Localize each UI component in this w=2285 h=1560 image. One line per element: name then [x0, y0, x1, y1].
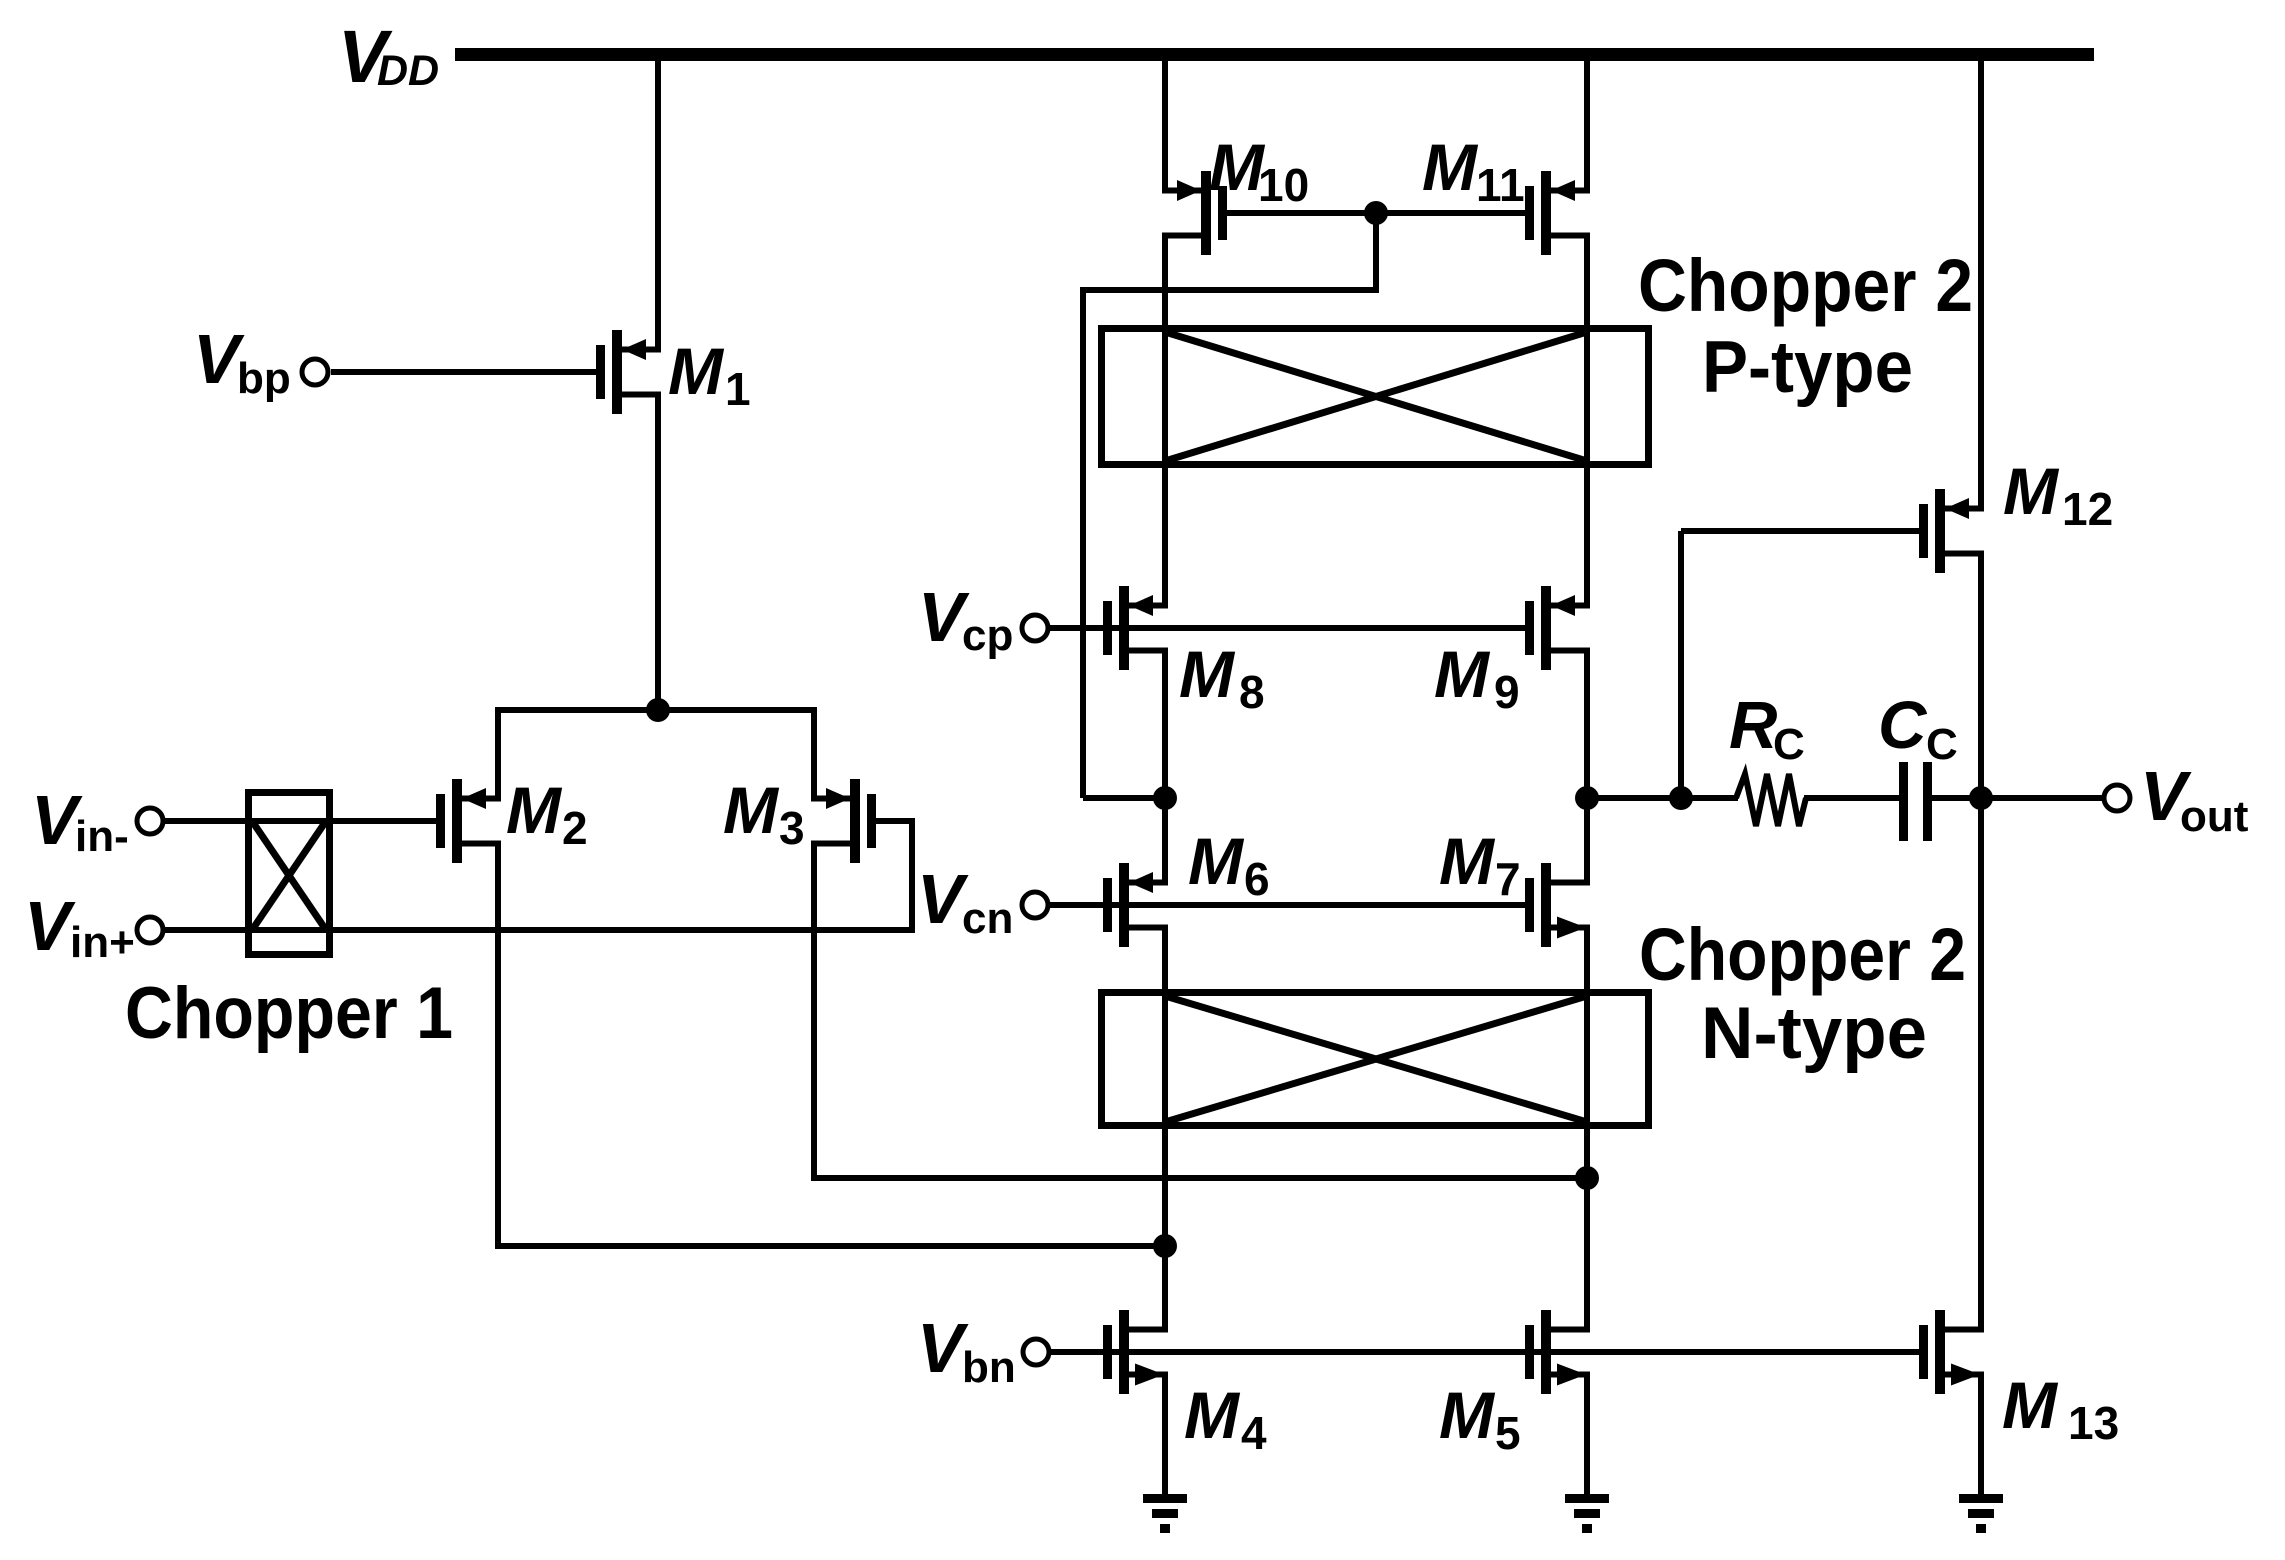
wire M7 source through chopper2N: [1584, 928, 1590, 1333]
svg-text:2: 2: [562, 802, 588, 854]
svg-text:M: M: [1439, 1378, 1496, 1452]
transistor M2 (PMOS): [436, 779, 501, 863]
label Vin+: [24, 887, 135, 967]
terminal Vcp: [1022, 615, 1048, 641]
wire M11 drain to chopper2P: [1584, 236, 1590, 609]
svg-text:Chopper 1: Chopper 1: [125, 973, 453, 1054]
label VDD: [338, 15, 439, 98]
ground under M4: [1143, 1494, 1187, 1533]
terminal Vbp: [302, 359, 328, 385]
wire node A to M6 drain: [1162, 798, 1168, 885]
svg-text:C: C: [1773, 720, 1805, 769]
label M2: [506, 773, 588, 854]
label Chopper 2 N-type: [1639, 913, 1966, 1074]
terminal Vin-: [137, 808, 163, 834]
label Vout: [2140, 757, 2249, 841]
label Chopper 1: [125, 973, 453, 1054]
node node B (first stage out): [1575, 786, 1599, 810]
wire M1 drain to tail node: [655, 395, 661, 713]
label M7: [1439, 824, 1521, 905]
svg-text:5: 5: [1495, 1407, 1521, 1459]
wire M3 gate jog horizontal: [876, 818, 912, 824]
svg-text:8: 8: [1239, 666, 1265, 718]
svg-text:M: M: [1439, 824, 1496, 898]
wire M9 drain to node B: [1584, 651, 1590, 799]
node tail junction: [646, 698, 670, 722]
label M1: [668, 334, 751, 415]
node M12 gate tap: [1669, 786, 1693, 810]
wire VDD to M10 source: [1162, 58, 1168, 191]
wire Vin- to M2 gate: [165, 818, 436, 824]
transistor M4 (NMOS): [1103, 1310, 1168, 1394]
wire M3 gate jog vertical: [909, 818, 915, 933]
wire Vin+ line: [165, 927, 912, 933]
wire rail to M2 source: [495, 707, 501, 799]
wire VDD to M1 source: [655, 58, 661, 350]
wire M10/M11 gate bus: [1227, 210, 1526, 216]
wire Rc to Cc: [1804, 795, 1901, 801]
svg-text:10: 10: [1258, 159, 1309, 211]
wire gate bus across: [1083, 287, 1379, 293]
chopper 2 N-type box: [1102, 993, 1649, 1126]
label M5: [1439, 1378, 1521, 1459]
wire M5 source to ground: [1584, 1375, 1590, 1499]
svg-text:6: 6: [1244, 853, 1270, 905]
wire M6 source through chopper2N: [1162, 928, 1168, 1333]
label M9: [1434, 637, 1520, 718]
transistor M9 (PMOS cascode): [1525, 586, 1590, 670]
terminal Vout: [2104, 785, 2130, 811]
svg-text:V: V: [24, 887, 76, 965]
node output node: [1969, 786, 1993, 810]
chopper 1 box: [249, 793, 330, 955]
transistor M7 (NMOS cascode): [1525, 863, 1590, 947]
svg-text:bp: bp: [237, 354, 291, 403]
label M3: [723, 773, 805, 854]
ground under M13: [1959, 1494, 2003, 1533]
label Vbn: [917, 1309, 1016, 1392]
capacitor Cc: [1899, 762, 1932, 841]
chopper 2 N-type cross: [1165, 996, 1587, 1122]
wire M3 drain to right branch: [811, 1175, 1587, 1181]
svg-text:M: M: [1184, 1378, 1241, 1452]
transistor M6 (NMOS cascode): [1103, 863, 1168, 947]
label Vcp: [918, 578, 1013, 660]
label Cc: [1878, 688, 1958, 769]
svg-text:3: 3: [779, 802, 805, 854]
svg-text:Chopper 2: Chopper 2: [1639, 913, 1966, 996]
label Chopper 2 P-type: [1638, 244, 1973, 408]
wire Vcn to M6/M7 gates: [1050, 902, 1525, 908]
transistor M11 (PMOS): [1525, 171, 1590, 255]
power rail VDD: [455, 48, 2094, 61]
svg-text:M: M: [2003, 454, 2060, 528]
wire Cc to Vout: [1930, 795, 2102, 801]
transistor M1 (PMOS): [596, 330, 661, 414]
wire Vcp to M8/M9 gates: [1050, 625, 1525, 631]
svg-text:N-type: N-type: [1701, 993, 1927, 1074]
svg-text:11: 11: [1476, 159, 1525, 211]
wire node B to Rc: [1587, 795, 1738, 801]
wire M12 drain to output node: [1978, 554, 1984, 799]
node M3 drain junction: [1575, 1166, 1599, 1190]
label Vin-: [31, 781, 129, 861]
svg-text:C: C: [1878, 688, 1928, 763]
transistor M5 (NMOS): [1525, 1310, 1590, 1394]
svg-text:bn: bn: [962, 1343, 1016, 1392]
svg-text:cn: cn: [962, 894, 1013, 943]
wire output node to M13 drain: [1978, 798, 1984, 1332]
label Rc: [1729, 688, 1805, 769]
terminal Vcn: [1022, 892, 1048, 918]
chopper 2 P-type cross: [1165, 332, 1587, 461]
wire M2/M3 source rail: [495, 707, 817, 713]
svg-text:out: out: [2180, 792, 2249, 841]
wire Vbp to M1 gate: [331, 369, 596, 375]
chopper 2 P-type box: [1102, 329, 1649, 465]
svg-text:9: 9: [1494, 666, 1520, 718]
transistor M8 (PMOS cascode): [1103, 586, 1168, 670]
wire M2 drain down: [495, 844, 501, 1247]
node node A (M8 drain): [1153, 786, 1177, 810]
svg-text:12: 12: [2062, 483, 2113, 535]
svg-text:R: R: [1729, 688, 1777, 763]
label M12: [2003, 454, 2113, 535]
label M13: [2002, 1368, 2119, 1449]
label Vbp: [193, 320, 291, 403]
svg-text:M: M: [1434, 637, 1491, 711]
wire M13 source to ground: [1978, 1375, 1984, 1499]
svg-text:M: M: [506, 773, 563, 847]
svg-text:1: 1: [725, 363, 751, 415]
wire VDD to M12 source: [1978, 58, 1984, 509]
wire M8 drain to node A: [1162, 651, 1168, 799]
label M8: [1179, 637, 1265, 718]
wire gate feedback to node A: [1083, 795, 1165, 801]
svg-text:in+: in+: [70, 918, 135, 967]
svg-text:7: 7: [1495, 853, 1521, 905]
ground under M5: [1565, 1494, 1609, 1533]
wire rail to M3 source: [811, 707, 817, 799]
label M6: [1188, 824, 1270, 905]
terminal Vbn: [1023, 1339, 1049, 1365]
svg-text:13: 13: [2068, 1397, 2119, 1449]
wire M12 gate lead: [1681, 528, 1920, 534]
resistor Rc: [1736, 774, 1806, 826]
node gate bus junction: [1364, 201, 1388, 225]
svg-text:C: C: [1926, 720, 1958, 769]
label Vcn: [917, 860, 1013, 943]
svg-text:M: M: [2002, 1368, 2059, 1442]
svg-text:M: M: [1422, 130, 1479, 204]
transistor M12 (PMOS): [1919, 489, 1984, 573]
chopper 1 cross: [252, 821, 326, 930]
svg-text:in-: in-: [75, 812, 129, 861]
svg-text:M: M: [723, 773, 780, 847]
transistor M10 (PMOS mirror): [1162, 171, 1227, 255]
wire M4 source to ground: [1162, 1375, 1168, 1499]
wire node B to M7 drain: [1584, 798, 1590, 885]
wire gate feedback down: [1080, 287, 1086, 798]
svg-text:4: 4: [1241, 1407, 1267, 1459]
label M4: [1184, 1378, 1267, 1459]
wire gate bus drop: [1373, 213, 1379, 290]
node M2 drain junction: [1153, 1234, 1177, 1258]
wire M3 drain down: [811, 844, 817, 1179]
wire M2 drain to left branch: [495, 1243, 1165, 1249]
svg-text:M: M: [668, 334, 725, 408]
svg-text:Chopper 2: Chopper 2: [1638, 244, 1973, 327]
label M11: [1422, 130, 1525, 211]
wire M12 gate drop: [1678, 531, 1684, 798]
label M10: [1209, 130, 1309, 211]
transistor M3 (PMOS): [811, 779, 876, 863]
wire Vbn to M4/M5/M13 gates: [1051, 1349, 1919, 1355]
terminal Vin+: [137, 917, 163, 943]
svg-text:M: M: [1179, 637, 1236, 711]
svg-text:DD: DD: [377, 47, 439, 95]
svg-text:cp: cp: [962, 611, 1013, 660]
svg-text:M: M: [1188, 824, 1245, 898]
wire VDD to M11 source: [1584, 58, 1590, 191]
wire M10 drain to chopper2P: [1162, 236, 1168, 609]
transistor M13 (NMOS): [1919, 1310, 1984, 1394]
svg-text:P-type: P-type: [1702, 327, 1913, 408]
